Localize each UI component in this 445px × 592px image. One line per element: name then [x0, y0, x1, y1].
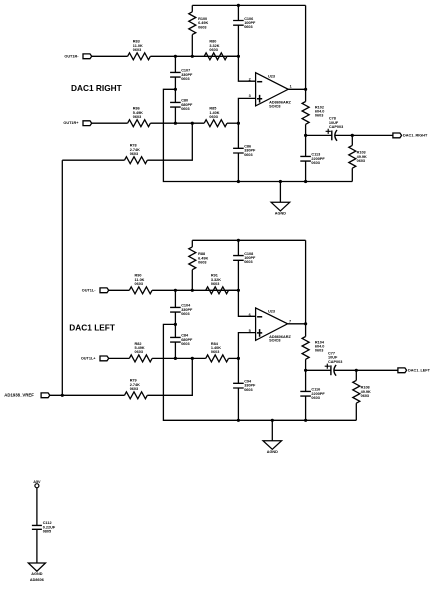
wire C86 to ground rail	[237, 153, 239, 182]
wire tap2 to ground rail 2	[163, 324, 356, 420]
wire output to R102	[305, 89, 307, 101]
svg-text:U23: U23	[268, 309, 275, 313]
resistor R108 49.9K	[353, 380, 371, 403]
svg-text:10UF: 10UF	[328, 356, 338, 360]
svg-text:0603: 0603	[361, 394, 369, 398]
wire opamp B output	[288, 323, 306, 325]
op-amp U23A AD8606ARZ	[249, 73, 292, 109]
wire AD1938_VREF rail	[61, 160, 63, 395]
junction C104/C84 tap	[174, 323, 177, 326]
svg-text:0603: 0603	[315, 114, 323, 118]
port OUT1R-	[64, 54, 91, 59]
wire tap to C80	[174, 89, 176, 102]
port OUT1L+	[81, 356, 109, 361]
port DAC1_LEFT	[398, 368, 431, 373]
svg-text:0603: 0603	[130, 387, 138, 391]
resistor R83 11.0K	[128, 40, 151, 60]
svg-text:7: 7	[289, 319, 291, 323]
svg-text:5: 5	[249, 329, 251, 333]
svg-text:2: 2	[249, 78, 251, 82]
op-amp U23B AD8606ARZ	[249, 308, 292, 343]
svg-text:10UF: 10UF	[329, 121, 339, 125]
resistor R90 11.0K	[129, 274, 152, 294]
capacitor C108 100PF	[233, 252, 256, 264]
wire R85 to pin3 column	[227, 122, 238, 124]
wire top feedback rail	[192, 4, 305, 6]
svg-text:C77: C77	[328, 351, 335, 355]
wire C112 to AGND	[36, 529, 38, 563]
svg-text:CAP003: CAP003	[328, 360, 342, 364]
resistor R100 6.49K	[189, 12, 209, 35]
wire C116 bottom lead	[305, 396, 307, 420]
capacitor C112 0.22UF	[32, 521, 56, 533]
junction pin5 column / +input line 2	[237, 357, 240, 360]
junction +input line 2 / R79 riser	[191, 357, 194, 360]
port OUT1L-	[82, 288, 109, 293]
svg-text:0603: 0603	[315, 349, 323, 353]
svg-text:0603: 0603	[198, 261, 206, 265]
resistor R104 604.0	[302, 337, 325, 360]
junction ground rail 2 / C116	[304, 419, 307, 422]
port AD1938_VREF	[4, 392, 50, 397]
svg-text:C78: C78	[329, 116, 336, 120]
wire A5V to C112	[36, 488, 38, 526]
svg-text:0603: 0603	[244, 388, 252, 392]
svg-text:0603: 0603	[130, 152, 138, 156]
junction VREF rail / VREF line	[61, 394, 64, 397]
resistor R82 5.49K	[129, 342, 152, 362]
wire C77 to R108 node	[334, 369, 357, 371]
junction +input line / C80	[174, 122, 177, 125]
wire tap to ground rail	[163, 89, 352, 181]
svg-text:AGND: AGND	[31, 572, 42, 576]
svg-text:0805: 0805	[43, 530, 51, 534]
junction out line 2 / C116	[304, 369, 307, 372]
wire C106 bottom lead	[237, 25, 239, 56]
wire R82 to R84	[152, 357, 206, 359]
svg-text:DAC1 LEFT: DAC1 LEFT	[69, 322, 115, 332]
wire pin6 drop	[238, 290, 255, 316]
svg-text:OUT1R-: OUT1R-	[64, 54, 79, 58]
wire out line 2 to C77	[306, 369, 331, 371]
junction ground rail 2 / C94	[237, 419, 240, 422]
svg-text:SOIC8: SOIC8	[269, 339, 280, 343]
svg-text:OUT1L-: OUT1L-	[82, 288, 96, 292]
wire C104 to tap2	[174, 312, 176, 324]
svg-text:CAP003: CAP003	[329, 125, 343, 129]
wire R86 to R85	[150, 122, 204, 124]
wire R91 right lead	[229, 289, 239, 291]
svg-text:0603: 0603	[209, 115, 217, 119]
svg-text:U23: U23	[268, 74, 275, 78]
junction output / feedback column	[304, 88, 307, 91]
junction out line / C113	[304, 134, 307, 137]
junction ground rail 2 / AGND	[271, 419, 274, 422]
wire C116 top lead	[305, 370, 307, 391]
wire R103 top lead	[351, 135, 353, 145]
wire C108 top lead	[237, 240, 239, 255]
svg-text:0603: 0603	[211, 282, 219, 286]
capacitor C107 330PF	[170, 69, 193, 81]
junction ground rail / C113	[304, 180, 307, 183]
wire R100 bottom lead	[191, 35, 193, 57]
svg-text:OUT1R+: OUT1R+	[63, 121, 79, 125]
resistor R85 1.40K	[204, 107, 227, 127]
junction top rail / C106	[237, 4, 240, 7]
wire C80 to +input line	[174, 107, 176, 123]
resistor R86 5.49K	[128, 107, 151, 127]
svg-text:0603: 0603	[198, 25, 206, 29]
wire R90 to C108 column	[152, 289, 238, 291]
port OUT1R+	[63, 121, 91, 126]
svg-text:0603: 0603	[311, 396, 319, 400]
junction ground rail / AGND	[279, 180, 282, 183]
svg-text:AD1938_VREF: AD1938_VREF	[4, 392, 34, 397]
junction output 2 / feedback column	[304, 322, 307, 325]
wire node A2 to C104	[174, 290, 176, 307]
capacitor C84 680PF	[170, 334, 193, 346]
capacitor C106 100PF	[233, 17, 256, 29]
svg-text:1: 1	[290, 85, 292, 89]
svg-text:0603: 0603	[244, 260, 252, 264]
wire pin3 column to C86	[237, 123, 239, 148]
capacitor C78 10UF polarized	[326, 116, 344, 140]
wire R80 right lead	[227, 55, 238, 57]
svg-text:0603: 0603	[244, 25, 252, 29]
wire top feedback rail 2	[192, 239, 305, 241]
junction node A / C106 / pin2 drop	[237, 55, 240, 58]
ground AGND symbol	[28, 563, 45, 582]
wire pin2 drop	[238, 56, 255, 81]
power symbol A5V	[33, 480, 41, 488]
svg-text:0603: 0603	[181, 107, 189, 111]
svg-text:0603: 0603	[357, 159, 365, 163]
resistor R78 2.74K	[125, 144, 148, 164]
wire R88 bottom lead	[191, 270, 193, 291]
port DAC1_RIGHT	[393, 133, 428, 138]
wire VREF rail to R78	[62, 159, 124, 161]
junction out line 2 / R108	[355, 369, 358, 372]
svg-text:AGND: AGND	[275, 212, 286, 216]
resistor R91 3.32K	[206, 274, 229, 294]
wire feedback rail 2 right drop	[305, 240, 307, 323]
wire R102 to out line	[305, 124, 307, 135]
wire R88 top lead	[191, 240, 193, 247]
junction node A2 / R88	[191, 289, 194, 292]
wire R79 to riser to +input 2	[147, 358, 192, 395]
wire OUT1R- to R83	[92, 55, 128, 57]
svg-text:0603: 0603	[181, 342, 189, 346]
capacitor C80 680PF	[170, 99, 193, 111]
capacitor C86 330PF	[233, 145, 256, 157]
wire R104 to out line 2	[305, 359, 307, 370]
junction node A / R100	[191, 55, 194, 58]
wire C94 to ground rail 2	[237, 388, 239, 420]
wire C113 top lead	[305, 135, 307, 156]
wire pin3 riser	[238, 98, 255, 123]
wire C106 top lead	[237, 5, 239, 20]
svg-text:0603: 0603	[211, 350, 219, 354]
wire pin5 column to C94	[237, 358, 239, 383]
capacitor C116 2200PF	[300, 388, 325, 400]
junction top rail 2 / C108	[237, 239, 240, 242]
junction +input line 2 / C84	[174, 357, 177, 360]
junction node A2 / C104	[174, 289, 177, 292]
svg-text:0603: 0603	[311, 161, 319, 165]
svg-text:0603: 0603	[135, 282, 143, 286]
wire feedback rail right drop	[305, 5, 307, 89]
resistor R88 6.49K	[189, 247, 209, 270]
junction node A / C107	[174, 55, 177, 58]
wire R108 bottom lead	[355, 403, 357, 420]
junction pin3 column / +input line	[237, 122, 240, 125]
ground AGND symbol	[263, 420, 282, 454]
svg-text:0603: 0603	[244, 153, 252, 157]
svg-text:6: 6	[249, 313, 251, 317]
junction C107/C80 tap	[174, 88, 177, 91]
svg-text:0603: 0603	[133, 48, 141, 52]
wire VREF port to R79	[50, 394, 125, 396]
wire R103 bottom lead	[351, 168, 353, 181]
resistor R80 3.32K	[204, 40, 227, 60]
svg-text:0603: 0603	[135, 350, 143, 354]
wire R108 top lead	[355, 370, 357, 380]
ground AGND symbol	[271, 182, 290, 216]
resistor R103 49.9K	[349, 145, 367, 168]
junction ground rail / C86	[237, 180, 240, 183]
wire node A to C107	[174, 56, 176, 72]
wire to DAC1_RIGHT port	[352, 134, 393, 136]
capacitor C113 2200PF	[300, 153, 325, 165]
svg-text:0603: 0603	[181, 312, 189, 316]
wire R78 to riser to +input	[147, 123, 192, 160]
wire C84 to +input line 2	[174, 342, 176, 358]
svg-text:0603: 0603	[209, 48, 217, 52]
wire C107 to tap	[174, 77, 176, 89]
wire R84 to pin5 column	[229, 357, 239, 359]
svg-text:OUT1L+: OUT1L+	[81, 356, 96, 360]
svg-text:0603: 0603	[181, 77, 189, 81]
wire tap2 to C84	[174, 324, 176, 337]
svg-text:AD8606: AD8606	[30, 578, 44, 582]
wire out line to C78	[306, 134, 332, 136]
junction out line / R103	[351, 134, 354, 137]
capacitor C104 330PF	[170, 304, 193, 316]
svg-text:DAC1_LEFT: DAC1_LEFT	[408, 368, 431, 372]
wire C113 bottom lead	[305, 161, 307, 181]
wire C108 bottom lead	[237, 260, 239, 290]
svg-text:0603: 0603	[133, 115, 141, 119]
junction +input line / R78 riser	[191, 122, 194, 125]
wire to DAC1_LEFT port	[356, 369, 398, 371]
capacitor C94 330PF	[233, 380, 256, 392]
resistor R79 2.74K	[125, 379, 148, 399]
resistor R102 604.0	[302, 102, 324, 125]
svg-text:AGND: AGND	[267, 450, 278, 454]
svg-text:DAC1 RIGHT: DAC1 RIGHT	[71, 83, 122, 93]
svg-text:SOIC8: SOIC8	[269, 104, 280, 108]
wire OUT1L- to R90	[109, 289, 130, 291]
wire C78 to R103 node	[335, 134, 353, 136]
wire opamp A output	[288, 88, 305, 90]
wire OUT1R+ to R86	[92, 122, 128, 124]
svg-text:3: 3	[249, 94, 251, 98]
wire R83 to C106 column	[150, 55, 238, 57]
wire output to R104	[305, 324, 307, 337]
resistor R84 1.40K	[206, 342, 229, 362]
wire pin5 riser	[238, 333, 255, 359]
wire R100 top lead	[191, 5, 193, 11]
svg-text:DAC1_RIGHT: DAC1_RIGHT	[403, 133, 428, 137]
junction node A2 / C108 / pin6 drop	[237, 289, 240, 292]
capacitor C77 10UF polarized	[325, 351, 343, 375]
wire OUT1L+ to R82	[109, 357, 130, 359]
